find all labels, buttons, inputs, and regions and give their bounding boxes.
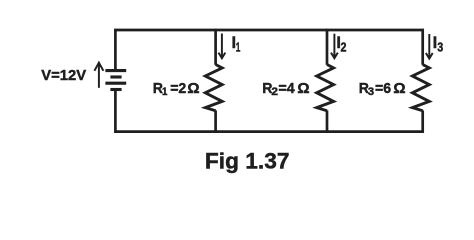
svg-text:=4: =4 xyxy=(278,80,295,97)
svg-text:1: 1 xyxy=(236,40,241,55)
svg-text:Ω: Ω xyxy=(187,80,199,97)
svg-text:2: 2 xyxy=(341,40,347,55)
svg-text:V=12V: V=12V xyxy=(41,67,86,84)
svg-text:3: 3 xyxy=(368,86,374,98)
svg-text:=6: =6 xyxy=(375,80,391,97)
svg-text:2: 2 xyxy=(271,86,278,98)
svg-text:Fig 1.37: Fig 1.37 xyxy=(205,148,290,173)
svg-text:Ω: Ω xyxy=(393,80,405,97)
svg-text:3: 3 xyxy=(437,40,443,55)
svg-text:1: 1 xyxy=(162,86,167,98)
svg-text:Ω: Ω xyxy=(297,80,309,97)
svg-text:=2: =2 xyxy=(170,80,186,97)
